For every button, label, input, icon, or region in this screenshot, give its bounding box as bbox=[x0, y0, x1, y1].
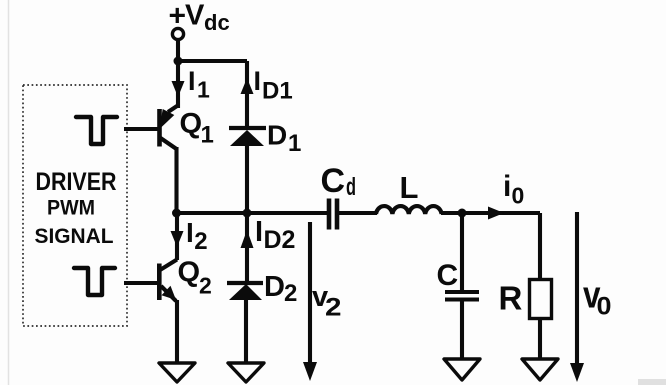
transistor Q1 bbox=[160, 106, 178, 149]
wire output to R bbox=[462, 211, 540, 215]
wire Q1 collector vertical bbox=[176, 61, 180, 108]
wire top horizontal bbox=[178, 59, 247, 63]
resistor R bbox=[530, 280, 552, 319]
current arrow I1 bbox=[172, 81, 185, 97]
svg-text:D: D bbox=[264, 271, 285, 303]
svg-text:D: D bbox=[267, 120, 287, 151]
terminal +Vdc bbox=[172, 28, 183, 39]
svg-text:SIGNAL: SIGNAL bbox=[35, 224, 114, 248]
wire R lower bbox=[538, 318, 542, 360]
wire D1 lower bbox=[245, 145, 249, 215]
label D2 bbox=[264, 271, 297, 307]
wire midpoint rail bbox=[175, 211, 327, 215]
svg-text:2: 2 bbox=[194, 228, 207, 255]
pulse waveform upper bbox=[76, 117, 117, 144]
label +Vdc bbox=[169, 0, 230, 35]
label Cd bbox=[321, 162, 357, 201]
wire D2 upper bbox=[245, 213, 249, 282]
wire D1 upper bbox=[245, 61, 249, 127]
svg-text:0: 0 bbox=[597, 293, 612, 321]
ground under D2 bbox=[228, 363, 264, 382]
wire Q2 collector vertical bbox=[175, 213, 179, 260]
label ID2 bbox=[255, 216, 295, 254]
wire R drop bbox=[538, 213, 542, 281]
svg-text:L: L bbox=[400, 170, 419, 205]
svg-text:dc: dc bbox=[204, 10, 230, 35]
capacitor C bbox=[445, 292, 479, 300]
svg-text:d: d bbox=[346, 173, 356, 201]
label I2 bbox=[186, 217, 208, 255]
label i0 bbox=[503, 170, 524, 209]
wire L to node bbox=[441, 211, 463, 215]
current arrow I2 bbox=[171, 231, 184, 247]
svg-text:i: i bbox=[503, 170, 511, 203]
ground under C bbox=[444, 359, 480, 380]
svg-text:I: I bbox=[188, 66, 196, 96]
inductor L bbox=[376, 206, 442, 214]
wire supply drop bbox=[176, 38, 180, 61]
wire C lower bbox=[460, 299, 464, 360]
wire Q2 emitter bbox=[175, 300, 179, 364]
diode D2 bbox=[227, 283, 263, 300]
ground under R bbox=[522, 359, 558, 380]
wire Q1 emitter bbox=[174, 147, 178, 215]
svg-text:I: I bbox=[255, 216, 263, 248]
diode D1 bbox=[229, 128, 266, 146]
voltage arrow v2 bbox=[303, 222, 317, 381]
wire Q2 base bbox=[124, 281, 157, 285]
svg-text:2: 2 bbox=[199, 273, 212, 299]
svg-text:Q: Q bbox=[180, 108, 203, 140]
svg-text:1: 1 bbox=[288, 130, 301, 157]
pulse waveform lower bbox=[74, 268, 115, 295]
scan smudge bottom right bbox=[638, 379, 666, 385]
label I1 bbox=[188, 66, 210, 103]
current arrow ID2 bbox=[241, 230, 254, 248]
svg-text:I: I bbox=[186, 217, 194, 248]
svg-text:1: 1 bbox=[201, 122, 214, 149]
wire Q1 base bbox=[124, 127, 158, 131]
label D1 bbox=[267, 120, 301, 158]
svg-text:0: 0 bbox=[512, 183, 525, 209]
svg-text:D2: D2 bbox=[264, 226, 296, 254]
label Q1 bbox=[180, 108, 214, 149]
svg-text:1: 1 bbox=[197, 77, 210, 103]
wire Cd to L bbox=[339, 211, 377, 215]
node midpoint left bbox=[172, 209, 181, 218]
svg-text:PWM: PWM bbox=[47, 196, 95, 220]
ground under Q2 bbox=[159, 363, 195, 382]
node midpoint D-branch bbox=[243, 209, 252, 218]
voltage arrow v0 bbox=[570, 212, 584, 382]
label v0 bbox=[583, 275, 612, 321]
label ID1 bbox=[254, 66, 293, 105]
driver box (dotted) bbox=[23, 85, 127, 326]
svg-text:Q: Q bbox=[178, 257, 201, 289]
svg-text:C: C bbox=[321, 162, 346, 200]
scan edge line bbox=[8, 0, 10, 385]
svg-text:C: C bbox=[437, 259, 459, 292]
current arrow ID1 bbox=[241, 78, 254, 94]
svg-text:2: 2 bbox=[284, 280, 297, 307]
transistor Q2 bbox=[159, 260, 177, 302]
wire D2 lower bbox=[244, 299, 248, 364]
node output bbox=[458, 209, 467, 218]
wire C drop bbox=[460, 213, 464, 292]
label v2 bbox=[312, 281, 342, 322]
svg-text:D1: D1 bbox=[262, 78, 293, 105]
svg-text:2: 2 bbox=[325, 294, 342, 322]
svg-text:R: R bbox=[499, 280, 523, 317]
svg-text:DRIVER: DRIVER bbox=[36, 168, 117, 196]
svg-text:V: V bbox=[185, 0, 205, 32]
label Q2 bbox=[178, 257, 212, 299]
node supply junction bbox=[174, 57, 183, 66]
current arrow i0 bbox=[488, 207, 504, 220]
capacitor Cd bbox=[329, 199, 337, 230]
svg-text:I: I bbox=[254, 66, 262, 96]
